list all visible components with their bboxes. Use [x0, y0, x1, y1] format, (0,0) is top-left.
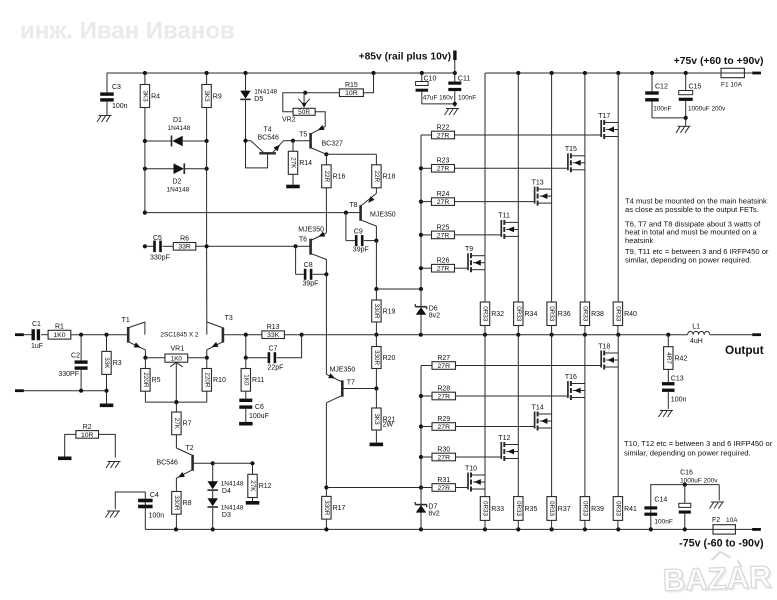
svg-text:330R: 330R [373, 350, 380, 366]
diode D3 [207, 498, 243, 529]
svg-text:-75v (-60 to -90v): -75v (-60 to -90v) [679, 537, 764, 549]
svg-text:3K3: 3K3 [203, 90, 210, 102]
svg-text:C4: C4 [150, 492, 159, 499]
svg-text:22R: 22R [323, 171, 330, 183]
capacitor C11 [448, 73, 476, 107]
capacitor C1 [23, 321, 48, 350]
mosfet T17 [598, 113, 618, 139]
resistor R35 [514, 497, 538, 530]
resistor R41 [613, 497, 637, 530]
ground below C3 [97, 116, 112, 123]
svg-text:27R: 27R [438, 485, 451, 492]
inductor L1 [688, 323, 753, 345]
ground left of R2 [58, 457, 72, 461]
svg-text:C9: C9 [354, 229, 363, 236]
wire T17 drain bus [617, 73, 619, 123]
svg-text:T9: T9 [465, 246, 473, 253]
svg-text:R10: R10 [213, 377, 226, 384]
svg-text:1000uF 200v: 1000uF 200v [688, 106, 726, 113]
wire T11 source bus [517, 222, 519, 302]
svg-text:100n: 100n [112, 103, 128, 110]
node gate bus upper [374, 287, 423, 291]
resistor R22 [421, 124, 601, 139]
svg-text:R8: R8 [183, 500, 192, 507]
capacitor C15 [679, 73, 726, 126]
resistor R6 [173, 236, 297, 251]
svg-text:T8: T8 [349, 202, 357, 209]
resistor R42 [664, 335, 688, 382]
svg-text:F1 10A: F1 10A [721, 82, 743, 89]
diode D4 [207, 461, 243, 498]
wire T10 source bus [484, 475, 486, 497]
svg-text:R20: R20 [383, 355, 396, 362]
svg-text:C15: C15 [689, 84, 702, 91]
svg-text:T16: T16 [565, 374, 577, 381]
svg-text:C1: C1 [32, 321, 41, 328]
svg-text:1N4148: 1N4148 [221, 505, 244, 512]
wire T9 source bus [484, 256, 486, 302]
transistor T2 [157, 445, 213, 492]
svg-text:T11: T11 [498, 213, 510, 220]
svg-text:100n: 100n [149, 513, 165, 520]
svg-text:1N4148: 1N4148 [221, 481, 244, 488]
transistor T1 [122, 317, 146, 358]
mosfet T16 [565, 374, 585, 400]
diode D5 [240, 73, 277, 141]
svg-text:0R33: 0R33 [515, 306, 522, 322]
svg-text:R19: R19 [383, 308, 396, 315]
transistor T8 [344, 193, 396, 240]
svg-text:0R33: 0R33 [515, 501, 522, 517]
wire tail junction [145, 400, 206, 404]
svg-text:R9: R9 [213, 93, 222, 100]
svg-text:T2: T2 [186, 445, 194, 452]
svg-text:C3: C3 [112, 84, 121, 91]
+85v terminal [359, 51, 457, 74]
svg-text:R39: R39 [591, 506, 604, 513]
svg-text:R18: R18 [383, 174, 396, 181]
svg-text:27R: 27R [437, 266, 450, 273]
resistor R33 [480, 497, 504, 530]
svg-text:MJE350: MJE350 [330, 367, 356, 374]
svg-text:D7: D7 [428, 504, 437, 511]
svg-text:MJE350: MJE350 [370, 212, 396, 219]
svg-text:T18: T18 [598, 343, 610, 350]
svg-text:1N4148: 1N4148 [168, 125, 191, 132]
svg-text:C8: C8 [304, 262, 313, 269]
ground right of C16 [710, 485, 725, 509]
svg-text:D1: D1 [173, 117, 182, 124]
output line wire [302, 333, 688, 337]
wire R4 column [143, 141, 147, 215]
capacitor C12 [645, 73, 686, 118]
resistor R15 [303, 73, 373, 97]
svg-text:VR2: VR2 [282, 117, 296, 124]
capacitor C5 [143, 235, 174, 262]
wire T15 drain bus [584, 73, 586, 156]
+75v terminal [674, 56, 764, 74]
ground below C15 [676, 126, 691, 133]
svg-text:0R33: 0R33 [548, 501, 555, 517]
svg-text:BAZAR: BAZAR [662, 559, 772, 598]
wire T18 drain bus [617, 335, 619, 353]
svg-text:R37: R37 [558, 506, 571, 513]
svg-text:R42: R42 [675, 355, 688, 362]
+85v rail wire [107, 71, 457, 75]
svg-text:R24: R24 [437, 191, 450, 198]
svg-text:330R: 330R [373, 303, 380, 319]
wire T17 source bus [617, 123, 619, 303]
diode D1 [143, 117, 209, 146]
resistor R29 [421, 416, 535, 431]
resistor R21 [372, 389, 396, 443]
svg-text:330PF: 330PF [58, 371, 79, 378]
svg-text:similar, depending on power re: similar, depending on power required. [624, 449, 751, 458]
wire T6 collector to T7 emitter [325, 274, 327, 374]
svg-text:27R: 27R [438, 393, 451, 400]
svg-text:1000uF 200v: 1000uF 200v [680, 477, 718, 484]
svg-text:1K0: 1K0 [242, 374, 249, 386]
svg-text:1N4148: 1N4148 [167, 187, 190, 194]
resistor R3 [102, 335, 122, 404]
svg-text:39pF: 39pF [303, 281, 319, 288]
svg-text:R34: R34 [525, 311, 538, 318]
+75v rail wire [485, 71, 752, 75]
input terminal bottom [15, 389, 24, 392]
svg-text:R26: R26 [437, 258, 450, 265]
svg-text:3K3: 3K3 [141, 90, 148, 102]
svg-text:T17: T17 [598, 113, 610, 120]
svg-text:T10, T12 etc = between 3 and 6: T10, T12 etc = between 3 and 6 IRFP450 o… [624, 439, 773, 448]
svg-text:T7: T7 [347, 380, 355, 387]
svg-text:BC546: BC546 [258, 134, 280, 141]
capacitor C8 [296, 246, 329, 287]
gate bus upper wire [419, 135, 423, 289]
svg-text:27K: 27K [249, 480, 256, 492]
resistor R13 [244, 324, 304, 339]
wire T3 collector [206, 322, 208, 335]
ground below C11 [445, 109, 460, 116]
svg-text:T13: T13 [532, 179, 544, 186]
ground below C6 [239, 422, 253, 426]
svg-text:R4: R4 [151, 93, 160, 100]
svg-text:+85v (rail plus 10v): +85v (rail plus 10v) [359, 52, 451, 63]
svg-text:R16: R16 [333, 174, 346, 181]
potentiometer VR1 [143, 346, 209, 402]
resistor R25 [421, 224, 501, 239]
svg-text:8v2: 8v2 [429, 313, 440, 320]
svg-text:2W: 2W [383, 422, 394, 429]
svg-text:1N4148: 1N4148 [254, 89, 277, 96]
svg-text:27K: 27K [173, 418, 180, 430]
svg-text:VR1: VR1 [171, 346, 185, 353]
svg-text:50R: 50R [298, 109, 310, 116]
svg-text:2SC1845 X 2: 2SC1845 X 2 [160, 332, 198, 339]
mosfet T14 [532, 404, 552, 430]
ground right of R2 [106, 462, 121, 469]
resistor R10 [202, 358, 226, 402]
svg-text:L1: L1 [692, 323, 700, 330]
ground below R21 [370, 443, 384, 447]
svg-text:1K0: 1K0 [171, 356, 183, 363]
resistor R24 [421, 191, 535, 206]
svg-text:R25: R25 [437, 224, 450, 231]
svg-text:C10: C10 [424, 76, 437, 83]
capacitor C2 [58, 335, 87, 391]
svg-text:R30: R30 [437, 446, 450, 453]
svg-text:C5: C5 [153, 235, 162, 242]
svg-text:as close as possible to the ou: as close as possible to the output FETs. [625, 205, 759, 214]
output terminal [725, 333, 764, 357]
svg-text:BC546: BC546 [157, 459, 179, 466]
svg-text:10A: 10A [726, 517, 738, 524]
svg-text:T12: T12 [498, 435, 510, 442]
svg-text:22R: 22R [373, 171, 380, 183]
svg-text:R17: R17 [333, 505, 346, 512]
resistor R8 [172, 492, 192, 530]
svg-text:27R: 27R [437, 199, 450, 206]
svg-text:0R33: 0R33 [482, 501, 489, 517]
svg-text:4R7: 4R7 [665, 352, 672, 364]
-75v terminal [679, 528, 764, 549]
svg-text:27R: 27R [438, 454, 451, 461]
resistor R7 [172, 402, 192, 448]
svg-text:R40: R40 [624, 311, 637, 318]
wire T13 source bus [551, 189, 553, 302]
wire R9 column [206, 141, 208, 322]
svg-text:R38: R38 [591, 311, 604, 318]
wire T14 drain bus [551, 335, 553, 414]
svg-text:47uF 160v: 47uF 160v [423, 95, 454, 102]
svg-text:R15: R15 [345, 82, 358, 89]
svg-text:R35: R35 [525, 506, 538, 513]
wire T14 source bus [551, 414, 553, 497]
svg-text:R36: R36 [558, 311, 571, 318]
-75v rail wire [145, 527, 752, 531]
svg-text:3K3: 3K3 [373, 413, 380, 425]
watermark text [20, 18, 235, 45]
svg-text:T15: T15 [565, 146, 577, 153]
resistor R31 [421, 477, 468, 492]
svg-text:R23: R23 [437, 158, 450, 165]
resistor R34 [514, 302, 538, 335]
svg-text:C11: C11 [458, 76, 470, 83]
mosfet T18 [598, 343, 618, 369]
input return wire [23, 389, 106, 393]
svg-text:R41: R41 [624, 506, 637, 513]
svg-text:R2: R2 [83, 424, 92, 431]
svg-text:T14: T14 [532, 404, 544, 411]
svg-text:330R: 330R [173, 495, 180, 511]
note text T10 T12 [624, 439, 773, 458]
svg-text:R29: R29 [437, 416, 450, 423]
svg-text:T5: T5 [299, 131, 307, 138]
svg-text:10R: 10R [345, 90, 358, 97]
resistor R37 [547, 497, 571, 530]
ground left of C4 [106, 511, 121, 518]
resistor R11 [241, 358, 264, 399]
input terminal top [15, 333, 24, 336]
transistor T6 [296, 226, 327, 274]
wire T11 drain bus [517, 73, 519, 222]
svg-text:+75v (+60 to +90v): +75v (+60 to +90v) [674, 56, 764, 67]
mosfet T9 [465, 246, 485, 272]
svg-text:0R33: 0R33 [482, 306, 489, 322]
resistor R1 [48, 324, 128, 340]
zener diode D7 [415, 488, 440, 530]
svg-text:D5: D5 [254, 96, 263, 103]
wire T12 source bus [517, 445, 519, 497]
note text T6 T7 T8 [625, 219, 761, 245]
svg-text:39pF: 39pF [353, 247, 369, 254]
svg-text:1uF: 1uF [31, 343, 43, 350]
logo watermark [662, 550, 774, 600]
ground below R3 [100, 404, 114, 408]
node T5 collector [324, 152, 376, 165]
svg-text:MJE350: MJE350 [298, 226, 324, 233]
wire T9 drain bus [484, 73, 486, 256]
fuse F2 [712, 517, 738, 534]
wire T16 source bus [584, 384, 586, 497]
resistor R30 [421, 446, 501, 461]
ground below R14 [286, 185, 300, 189]
svg-text:100nF: 100nF [458, 94, 476, 101]
resistor R32 [480, 302, 504, 335]
resistor R36 [547, 302, 571, 335]
svg-text:D4: D4 [222, 488, 231, 495]
svg-text:C6: C6 [255, 404, 264, 411]
mosfet T13 [532, 179, 552, 205]
svg-text:100nF: 100nF [653, 106, 671, 113]
note text T9 T11 [625, 247, 769, 264]
svg-text:D6: D6 [429, 306, 438, 313]
resistor R17 [322, 488, 346, 530]
capacitor C14 [644, 485, 719, 530]
svg-text:10R: 10R [81, 432, 94, 439]
transistor T3 [207, 315, 246, 358]
capacitor C7 [244, 335, 302, 372]
svg-text:R11: R11 [252, 377, 264, 384]
svg-text:220R: 220R [142, 372, 149, 388]
svg-text:R22: R22 [437, 124, 450, 131]
wire T7 collector [325, 403, 327, 488]
svg-text:R33: R33 [491, 506, 504, 513]
svg-text:D3: D3 [222, 512, 231, 519]
resistor R14 [288, 139, 312, 185]
svg-text:0R33: 0R33 [581, 501, 588, 517]
svg-text:heatsink: heatsink [625, 236, 653, 245]
resistor R16 [322, 165, 346, 233]
svg-text:инж. Иван Иванов: инж. Иван Иванов [20, 18, 235, 45]
svg-text:R14: R14 [299, 160, 312, 167]
resistor R40 [613, 302, 637, 335]
resistor R9 [202, 73, 222, 141]
svg-text:R3: R3 [113, 360, 122, 367]
svg-text:C13: C13 [671, 376, 684, 383]
potentiometer VR2 [282, 93, 315, 124]
wire T15 source bus [584, 156, 586, 302]
svg-text:1K0: 1K0 [53, 332, 65, 339]
ground below R12 [246, 501, 259, 505]
mosfet T15 [565, 146, 585, 172]
svg-text:27R: 27R [437, 232, 450, 239]
svg-text:C14: C14 [654, 497, 667, 504]
svg-text:R5: R5 [152, 377, 161, 384]
svg-text:similar, depending on power re: similar, depending on power required. [625, 255, 752, 264]
transistor T7 [326, 367, 376, 403]
wire T13 drain bus [551, 73, 553, 189]
svg-text:T10: T10 [465, 465, 477, 472]
svg-text:33R: 33R [178, 244, 191, 251]
resistor R39 [580, 497, 604, 530]
resistor R28 [421, 385, 568, 400]
resistor R20 [372, 333, 396, 391]
resistor R27 [421, 355, 601, 370]
svg-text:T6: T6 [299, 236, 307, 243]
svg-text:27R: 27R [438, 424, 451, 431]
svg-text:T4: T4 [264, 126, 272, 133]
svg-text:0R33: 0R33 [548, 306, 555, 322]
node lower gate line [324, 485, 423, 489]
svg-text:0R33: 0R33 [614, 306, 621, 322]
resistor R19 [372, 289, 396, 335]
svg-text:100n: 100n [671, 397, 687, 404]
svg-text:27K: 27K [290, 157, 297, 169]
svg-text:R6: R6 [180, 236, 189, 243]
transistor T4 [243, 126, 293, 168]
fuse F1 [721, 68, 744, 88]
mosfet T10 [465, 465, 485, 491]
wire T8 collector [375, 241, 377, 289]
svg-text:0R33: 0R33 [581, 306, 588, 322]
resistor R12 [213, 461, 272, 501]
svg-text:100nF: 100nF [654, 519, 672, 526]
wire T8 base line [145, 212, 346, 214]
wire T12 drain bus [517, 335, 519, 445]
svg-text:C16: C16 [680, 470, 693, 477]
resistor R18 [372, 165, 396, 194]
svg-text:330pF: 330pF [150, 255, 170, 262]
svg-text:C2: C2 [71, 353, 80, 360]
capacitor C13 [662, 376, 686, 410]
svg-text:330R: 330R [323, 500, 330, 516]
svg-text:33K: 33K [267, 332, 280, 339]
svg-text:C7: C7 [269, 346, 278, 353]
resistor R38 [580, 302, 604, 335]
svg-text:R7: R7 [183, 421, 192, 428]
gate bus lower wire [419, 366, 423, 488]
svg-text:R31: R31 [437, 477, 450, 484]
svg-text:R28: R28 [437, 385, 450, 392]
capacitor C3 [100, 73, 127, 116]
svg-text:33K: 33K [103, 357, 110, 369]
svg-text:D2: D2 [173, 179, 182, 186]
capacitor C6 [239, 399, 269, 422]
ground below C13 [659, 411, 674, 418]
svg-text:R27: R27 [437, 355, 450, 362]
note text T4 [625, 196, 767, 214]
wire T16 drain bus [584, 335, 586, 384]
wire T10 drain bus [484, 335, 486, 475]
capacitor C10 [416, 73, 455, 104]
svg-text:220R: 220R [203, 372, 210, 388]
capacitor C16 [679, 470, 718, 530]
svg-text:BC327: BC327 [322, 141, 344, 148]
mosfet T11 [498, 213, 518, 239]
label 2SC1845 [160, 332, 198, 339]
resistor R26 [421, 258, 468, 273]
svg-text:0R33: 0R33 [614, 501, 621, 517]
